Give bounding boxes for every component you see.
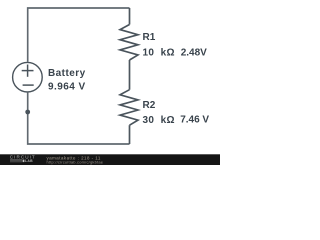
svg-text:http://circuitlab.com/c/gkbtae: http://circuitlab.com/c/gkbtae [47, 159, 104, 164]
svg-text:2.48V: 2.48V [181, 47, 207, 58]
svg-text:R1: R1 [143, 32, 156, 43]
svg-text:7.46 V: 7.46 V [180, 114, 209, 125]
svg-text:9.964 V: 9.964 V [48, 81, 86, 92]
svg-text:10 kΩ: 10 kΩ [143, 48, 175, 59]
svg-text:Battery: Battery [48, 68, 86, 79]
svg-text:R2: R2 [143, 100, 156, 111]
svg-text:30 kΩ: 30 kΩ [143, 115, 175, 126]
svg-text:LAB: LAB [25, 159, 33, 163]
